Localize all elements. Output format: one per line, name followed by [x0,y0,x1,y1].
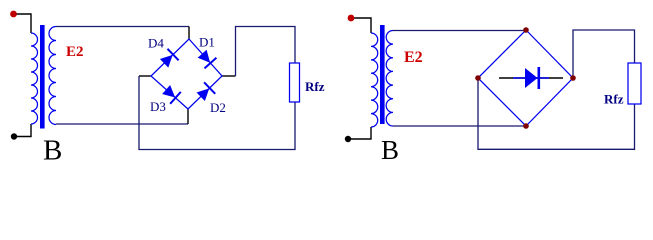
svg-text:D2: D2 [210,100,226,115]
svg-text:Rfz: Rfz [604,92,624,107]
svg-text:B: B [43,135,62,165]
svg-text:Rfz: Rfz [305,79,325,94]
svg-text:E2: E2 [66,44,84,60]
svg-text:B: B [381,135,399,164]
svg-text:D4: D4 [148,36,164,51]
svg-text:E2: E2 [404,49,423,66]
svg-text:D1: D1 [199,35,215,50]
svg-text:D3: D3 [150,99,166,114]
